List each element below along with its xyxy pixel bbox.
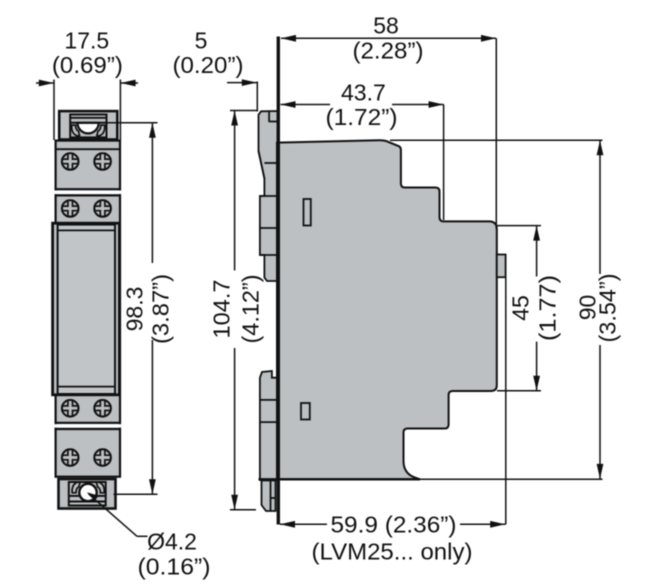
svg-text:(LVM25... only): (LVM25... only) bbox=[312, 539, 473, 565]
front view: white gap between block C and D bbox=[54, 424, 121, 427]
dim 59.9 right extension line bbox=[505, 278, 507, 525]
dim 58 line with arrows bbox=[281, 35, 496, 42]
svg-text:104.7: 104.7 bbox=[209, 280, 235, 339]
dim 17.5 extension lines bbox=[53, 80, 55, 141]
svg-text:43.7: 43.7 bbox=[341, 79, 386, 105]
front view: bottom DIN-clip tab with mounting hole bbox=[59, 479, 116, 509]
svg-text:Ø4.2: Ø4.2 bbox=[147, 529, 197, 555]
front view: center label plate bbox=[58, 225, 115, 394]
side view: main body profile bbox=[277, 140, 497, 479]
lower tab foot bbox=[262, 481, 276, 512]
svg-text:(1.72”): (1.72”) bbox=[326, 104, 398, 130]
front view: center section outer bbox=[53, 223, 120, 395]
dim 98.3 top extension line bbox=[88, 122, 158, 124]
svg-text:(1.77): (1.77) bbox=[534, 275, 560, 341]
dim 43.7 line with arrows bbox=[281, 101, 444, 108]
dim 45 vertical line with arrows bbox=[533, 226, 540, 391]
leader line to hole label bbox=[87, 492, 148, 536]
side view: lower DIN clip bbox=[260, 371, 278, 511]
svg-text:58: 58 bbox=[373, 13, 399, 39]
svg-text:(0.16”): (0.16”) bbox=[138, 554, 211, 580]
front view: terminal block A bottom edge bbox=[56, 188, 120, 190]
svg-text:98.3: 98.3 bbox=[122, 287, 148, 332]
dim 104.7 top extension line bbox=[230, 110, 258, 112]
dim 5 extension line bbox=[256, 82, 258, 112]
front view: top DIN-clip tab bbox=[59, 111, 117, 139]
svg-text:(3.87”): (3.87”) bbox=[147, 274, 173, 344]
front view: screw M7 (row4 left) bbox=[62, 449, 79, 466]
dim 5 arrow bbox=[227, 79, 257, 86]
dim 104.7 bottom extension line bbox=[230, 509, 256, 511]
mounting hole O4.2 bbox=[79, 484, 96, 501]
front view: screw M1 (row1 left) bbox=[62, 153, 79, 170]
dim 45 bottom extension line bbox=[497, 390, 541, 392]
svg-text:59.9 (2.36”): 59.9 (2.36”) bbox=[331, 512, 457, 538]
dim 90 top extension line bbox=[390, 139, 603, 141]
front view: screw M2 (row1 right) bbox=[94, 153, 111, 170]
front view: top strip line bbox=[56, 148, 120, 150]
front view: screw M4 (row2 right) bbox=[94, 200, 111, 217]
front view: white gap between block A and B bbox=[54, 191, 121, 195]
svg-text:(4.12”): (4.12”) bbox=[238, 275, 264, 344]
dim 90 vertical line with arrows bbox=[597, 140, 604, 479]
dim 43.7 right extension line bbox=[443, 105, 445, 221]
dim 17.5 right arrow bbox=[121, 80, 138, 87]
svg-text:17.5: 17.5 bbox=[64, 28, 109, 54]
dim 98.3 bottom extension line bbox=[114, 493, 158, 495]
front view: terminal block B top edge bbox=[56, 194, 120, 196]
svg-text:5: 5 bbox=[195, 28, 208, 54]
dim 59.9 line with arrows bbox=[280, 521, 505, 528]
side view: slot 1 bbox=[304, 199, 311, 226]
dim 45 top extension line bbox=[497, 225, 541, 227]
dim 58 right extension line bbox=[495, 38, 497, 229]
dim 104.7 vertical line with arrows bbox=[231, 111, 238, 510]
svg-text:(2.28”): (2.28”) bbox=[353, 38, 424, 64]
side view: slot 2 bbox=[301, 403, 310, 420]
svg-text:(0.69”): (0.69”) bbox=[52, 52, 123, 78]
svg-text:(0.20”): (0.20”) bbox=[173, 52, 244, 78]
side view: upper DIN clip bbox=[259, 111, 278, 281]
front view: terminal block D top edge bbox=[56, 428, 120, 430]
side view: front face thick line bbox=[277, 37, 280, 525]
side view: rear connector tab (LVM25) bbox=[497, 255, 506, 278]
svg-text:(3.54”): (3.54”) bbox=[595, 274, 621, 343]
dim 98.3 vertical line with arrows bbox=[149, 123, 156, 495]
dim 17.5 left arrow bbox=[36, 80, 54, 87]
front view: screw M8 (row4 right) bbox=[94, 449, 111, 466]
front view: terminal block C bottom edge bbox=[56, 422, 120, 424]
svg-text:45: 45 bbox=[507, 295, 533, 321]
front view: screw M5 (row3 left) bbox=[62, 400, 79, 417]
side view: bottom edge thick + 90 extension bbox=[259, 478, 421, 480]
front view: screw M3 (row2 left) bbox=[62, 200, 79, 217]
front view: main body outline bbox=[56, 141, 120, 477]
front view: screw M6 (row3 right) bbox=[94, 400, 111, 417]
